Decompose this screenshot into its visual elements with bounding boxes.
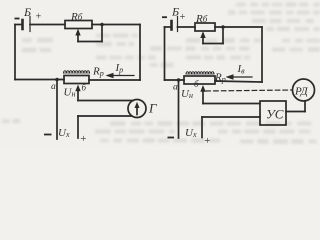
wire right vertical to slidewire — [89, 79, 140, 81]
wire battery minus lead right — [165, 26, 171, 28]
svg-text:+: + — [179, 12, 186, 23]
galvanometer G needle arrow — [136, 105, 138, 115]
wire Rb to right vertical — [92, 24, 140, 26]
junction dot after Rb right — [221, 25, 225, 29]
wire right vertical — [139, 25, 141, 81]
wire output up to RD — [304, 102, 306, 112]
label minus Ux left — [44, 134, 52, 136]
svg-text:б: б — [194, 79, 199, 89]
wire plus terminal vertical — [77, 116, 79, 138]
amplifier US box — [260, 101, 286, 125]
current arrow Iv — [228, 76, 252, 78]
label minus battery right — [162, 16, 167, 18]
wire Rb to right vertical right circuit — [215, 26, 262, 28]
resistor Rb right body — [195, 23, 215, 31]
mechanical link dashed to RD — [206, 90, 292, 91]
svg-text:РД: РД — [294, 86, 309, 98]
svg-text:Rб: Rб — [195, 13, 208, 25]
label minus Ux right — [168, 137, 175, 139]
wire plus terminal vertical right — [201, 117, 203, 138]
paper background — [0, 0, 320, 146]
wire right vertical to slidewire right circuit — [215, 81, 262, 82]
battery B2 short plate (negative) — [170, 21, 173, 30]
label minus battery left — [15, 18, 20, 20]
node a dot — [55, 78, 59, 82]
svg-text:Г: Г — [148, 101, 157, 116]
svg-text:Rб: Rб — [70, 11, 83, 23]
wire bottom-left horizontal to slidewire right circuit — [165, 79, 185, 81]
wire wiper loop bottom — [78, 41, 102, 43]
svg-text:+: + — [204, 135, 211, 146]
resistor Rb (rheostat body) — [65, 21, 92, 29]
wire battery to Rb — [30, 24, 65, 26]
wire wiper loop up — [101, 25, 103, 42]
junction dot after Rb — [100, 23, 104, 27]
svg-text:+: + — [35, 12, 42, 23]
wiper arrow of Rb — [77, 32, 79, 42]
svg-text:+: + — [80, 133, 87, 145]
svg-text:a: a — [51, 82, 56, 92]
wire wiper b to galvanometer — [78, 100, 133, 102]
svg-text:a: a — [173, 83, 178, 93]
wire left vertical right circuit — [164, 27, 166, 80]
svg-text:б: б — [82, 83, 87, 93]
wire right vertical right circuit — [261, 27, 263, 82]
slidewire Rp winding scallops — [64, 71, 90, 73]
wire wiper b to amplifier — [203, 103, 260, 105]
slidewire Rp right winding scallops — [186, 72, 214, 74]
battery B2 long plate (positive) — [177, 17, 179, 32]
current arrow Ip — [108, 75, 134, 77]
svg-text:Б: Б — [23, 5, 31, 19]
wire left vertical — [14, 25, 16, 80]
wire node a vertical down right — [178, 80, 180, 138]
svg-text:УС: УС — [266, 107, 284, 122]
wire plus terminal to galvanometer — [78, 115, 132, 117]
wiper arrow of Rb right — [202, 34, 204, 44]
wire battery to Rb right — [178, 26, 196, 28]
wire wiper loop up right — [222, 27, 224, 44]
node a dot right — [177, 78, 181, 82]
wiper b of slidewire right arrow — [202, 90, 204, 104]
motor RD circle — [293, 79, 315, 101]
wire bottom-left horizontal to slidewire — [15, 79, 64, 81]
wire plus terminal to amplifier — [202, 116, 260, 118]
wire wiper loop bottom right — [203, 43, 223, 45]
slidewire Rp body — [64, 76, 89, 84]
wire node a vertical down to minus terminal — [56, 80, 58, 140]
battery B1 short plate (negative) — [21, 20, 24, 29]
wire amplifier output — [286, 111, 305, 113]
battery B1 long plate (positive) — [29, 17, 31, 32]
wire battery minus lead — [15, 24, 21, 26]
svg-text:Б: Б — [171, 5, 179, 19]
slidewire Rp right body — [184, 76, 215, 84]
galvanometer G circle — [128, 100, 146, 118]
wiper b of slidewire arrow — [77, 90, 79, 101]
